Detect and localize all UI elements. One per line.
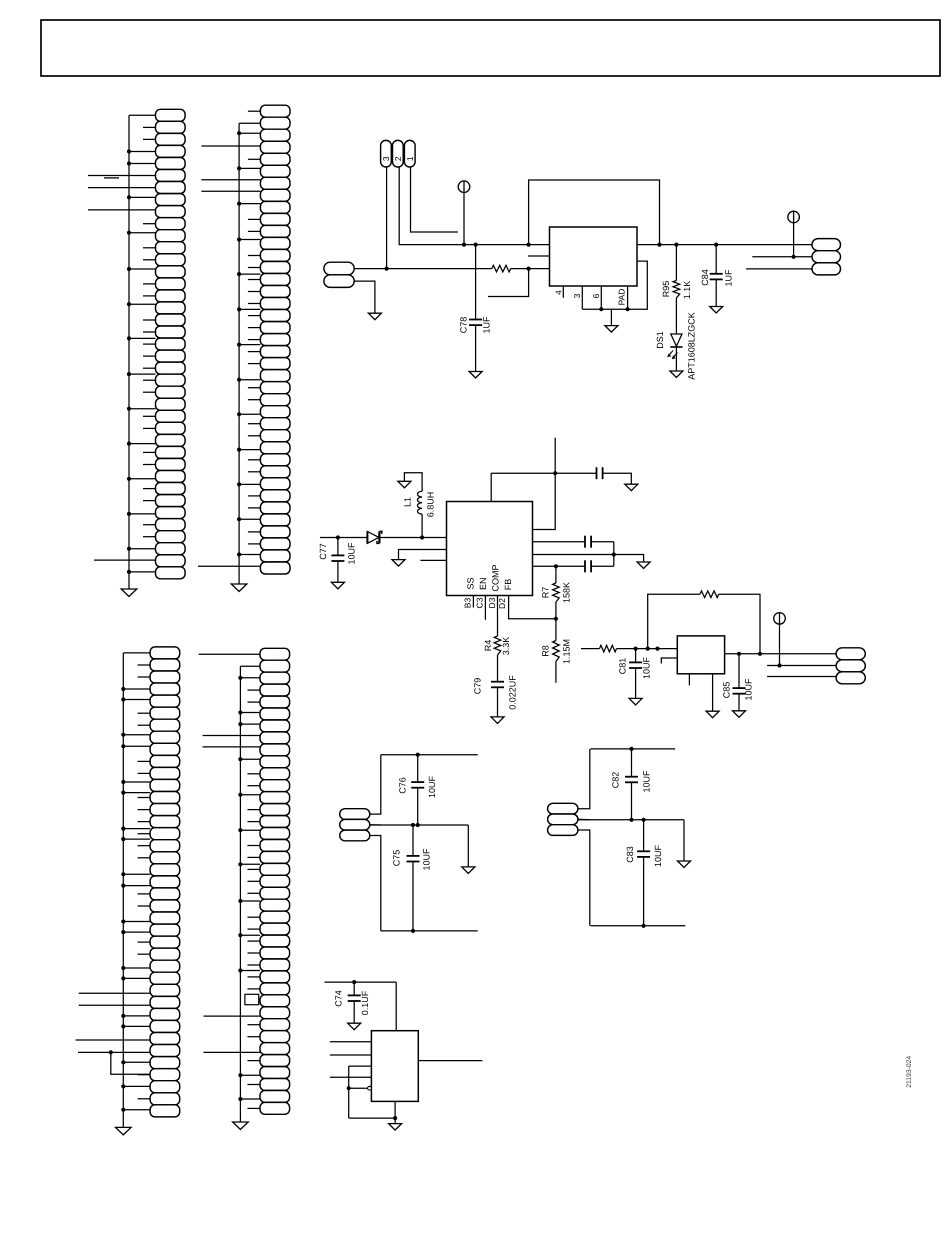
capacitor C85: [733, 687, 746, 689]
svg-text:C3: C3: [475, 597, 485, 608]
ground under C84: [710, 307, 723, 314]
svg-text:10UF: 10UF: [744, 678, 754, 701]
ground of C82 block: [678, 861, 691, 868]
connector P3 pin pills: [150, 647, 180, 1117]
wire J6 pin1 to top rail: [578, 749, 590, 809]
svg-text:B3: B3: [463, 598, 473, 609]
inductor L1 bottom wire: [421, 514, 423, 537]
connector J1 (2-pin): [324, 262, 354, 287]
ground under C79: [491, 717, 504, 724]
U1 pin 3 wire: [581, 286, 583, 309]
connector P1 corner lead wire: [129, 114, 156, 116]
wire J4 pin2 net: [767, 665, 836, 667]
power flag VOUT top: [788, 211, 800, 223]
C83 branch wire top: [643, 820, 645, 852]
node dot C83 top: [642, 818, 646, 822]
svg-text:3.3K: 3.3K: [501, 637, 511, 656]
svg-text:DS1: DS1: [655, 331, 665, 349]
connector J2 (3-pin, pins 3 2 1): [381, 140, 416, 167]
svg-text:4: 4: [554, 290, 564, 295]
stub wire from lower bus down-left: [488, 269, 529, 297]
connector P2 corner lead wire: [239, 122, 260, 124]
wire L1 top to ground: [404, 473, 422, 492]
svg-text:R4: R4: [483, 640, 493, 652]
node dot C85 branch: [737, 652, 741, 656]
svg-text:1.15M: 1.15M: [562, 639, 572, 664]
node dot FB divider: [554, 617, 558, 621]
node dot top loop left: [527, 243, 531, 247]
capacitor C77 branch wire: [337, 538, 339, 556]
wire J3 pin3 net: [746, 268, 812, 270]
U2 COMP pin wire: [497, 596, 499, 637]
net tick mark near P1: [104, 177, 119, 179]
C75 branch wire bottom: [412, 862, 414, 931]
U4 tie vertical wire: [348, 1066, 350, 1118]
svg-text:1.1K: 1.1K: [682, 281, 692, 300]
wire J5 pin2 to mid rail: [370, 824, 381, 826]
svg-text:10UF: 10UF: [641, 656, 651, 679]
top rail wire of C76 block: [381, 754, 478, 756]
node dot C83 bottom: [642, 924, 646, 928]
wire bootstrap cap to ground: [603, 473, 632, 484]
connector J3 (3-pin): [812, 239, 841, 275]
ground at U2 left: [392, 560, 405, 567]
wire J2 pin3 to lower bus: [386, 167, 388, 269]
resistor R7 top wire: [555, 566, 557, 583]
U2 pin C3 stub wire: [484, 596, 486, 620]
svg-text:C77: C77: [318, 543, 328, 560]
IC U4 body: [371, 1031, 418, 1102]
node dot J4 pin2: [777, 663, 781, 667]
svg-text:10UF: 10UF: [347, 542, 357, 565]
U3 bottom stub wire: [688, 674, 690, 686]
wire power flag to upper bus: [463, 192, 465, 245]
node dot C77 branch: [336, 535, 340, 539]
svg-text:C85: C85: [721, 682, 731, 699]
ground under U3: [706, 711, 719, 718]
C83 branch wire bottom: [643, 857, 645, 926]
ground under J1: [368, 313, 381, 320]
wire resistor to U3: [617, 648, 678, 650]
capacitor C79: [491, 681, 504, 683]
title block frame: [41, 20, 940, 76]
svg-text:1: 1: [405, 156, 415, 161]
wire J1 pin2 to ground: [354, 281, 375, 313]
wire output cap B to corner: [591, 565, 614, 567]
U4 short pin wire: [349, 1065, 372, 1067]
bottom rail wire of C82 block: [591, 925, 686, 927]
svg-text:EN: EN: [478, 578, 488, 591]
connector P2 bus wire: [238, 123, 240, 584]
U3 EN stub wire: [661, 658, 677, 664]
mid rail wire of C82 block: [578, 819, 684, 821]
svg-text:3: 3: [381, 156, 391, 161]
U2 FB pin wire: [533, 565, 586, 567]
ground under C81: [629, 698, 642, 705]
svg-text:1UF: 1UF: [482, 316, 492, 334]
top rail wire of U4 block: [324, 981, 396, 983]
node dot BST junction: [553, 471, 557, 475]
svg-text:0.1UF: 0.1UF: [360, 990, 370, 1015]
output capacitor B: [584, 560, 586, 572]
ground at U2 right: [637, 562, 650, 569]
svg-text:D2: D2: [497, 598, 507, 609]
bootstrap capacitor: [596, 467, 598, 479]
node wire with junction near P3 bottom: [109, 1050, 113, 1054]
capacitor C83: [637, 850, 650, 852]
wire C84 to ground: [715, 279, 717, 306]
DS1 emission arrows: [667, 351, 677, 360]
capacitor C78: [469, 319, 482, 321]
capacitor C81 branch wire: [635, 649, 637, 663]
node dot PAD junction: [626, 307, 630, 311]
ground under U1: [605, 326, 618, 333]
op IC U1 body: [550, 227, 638, 286]
node dot C76 top: [416, 753, 420, 757]
wire C74 to ground: [353, 1001, 355, 1023]
svg-text:C82: C82: [610, 772, 620, 789]
ground symbol under connector P2: [231, 584, 247, 592]
svg-text:C76: C76: [397, 777, 407, 794]
node dot U4 ground junction: [393, 1116, 397, 1120]
svg-text:APT1608LZGCK: APT1608LZGCK: [687, 312, 697, 380]
U4 input wire 1: [330, 1041, 372, 1043]
connector J5 (3-pin): [340, 809, 370, 841]
capacitor C74: [348, 994, 361, 996]
wire J5 pin3 to bottom rail: [370, 836, 381, 931]
U1 pin 6 wire: [600, 286, 602, 309]
node dot U4 tie: [347, 1086, 351, 1090]
C76 branch wire top: [417, 755, 419, 782]
connector P3 pin stub wires: [138, 665, 151, 1099]
connector P3 corner lead wire: [123, 652, 150, 654]
svg-text:0.022UF: 0.022UF: [508, 675, 518, 710]
connector P4 pin pills: [260, 648, 290, 1114]
svg-text:C74: C74: [333, 990, 343, 1007]
ground at bootstrap cap: [625, 484, 638, 491]
C82 branch wire top: [631, 749, 633, 777]
connector P4 pin lead wires with junction dots: [238, 676, 260, 1101]
node dot output cap bus: [612, 552, 616, 556]
wire top rail to U4 VCC: [395, 982, 397, 1031]
BST stub wire up: [554, 438, 556, 474]
LDO U3 body: [677, 636, 724, 674]
node dot C75 bottom: [411, 929, 415, 933]
series resistor at U3 input: [600, 645, 617, 652]
connector P4 corner lead wire: [240, 665, 260, 667]
svg-text:6.8UH: 6.8UH: [426, 492, 436, 518]
ground under C78: [469, 372, 482, 379]
node dot lower bus stub junction: [527, 267, 531, 271]
svg-text:C81: C81: [617, 658, 627, 675]
wire diode to U2 VIN: [379, 537, 446, 539]
wire J1 pin1 to lower bus: [354, 268, 386, 270]
connector P4 bus wire: [239, 666, 241, 1122]
connector P3 bus wire: [122, 653, 124, 1128]
connector P4 pin stub wires: [248, 690, 261, 1108]
svg-text:10UF: 10UF: [427, 775, 437, 798]
U4 enable bar wire with bubble: [349, 1087, 368, 1089]
ground symbol under connector P1: [121, 589, 137, 597]
resistor R8: [553, 641, 560, 662]
connector P1 pin pills: [156, 109, 186, 579]
node dot U3 input stub: [655, 647, 659, 651]
wire C77 to ground: [337, 561, 339, 582]
U2 left stub pin wire: [420, 559, 446, 561]
node dot feedback right: [758, 652, 762, 656]
capacitor C76: [411, 781, 424, 783]
node dot C78 branch: [474, 243, 478, 247]
capacitor C75: [407, 855, 420, 857]
node dot top loop right: [657, 243, 661, 247]
series resistor on lower bus: [492, 265, 511, 272]
connector P4 long net wires: [199, 654, 260, 1052]
capacitor C82: [625, 776, 638, 778]
node dot J3 pin2: [792, 255, 796, 259]
wire R7 to FB node: [555, 602, 557, 619]
connector P2 pin lead wires with junction dots: [237, 131, 260, 557]
wire J3 pin2 net: [752, 256, 812, 258]
svg-text:C83: C83: [625, 846, 635, 863]
connector J6 (3-pin): [548, 803, 578, 835]
U4 bottom tie wire: [349, 1117, 395, 1119]
wire J2 pin1 stub: [411, 167, 458, 232]
U2 VOUT pin1 wire: [533, 541, 586, 543]
wire J4 pin3 net: [767, 676, 836, 678]
wire C85 to ground: [738, 694, 740, 711]
schottky diode D1: [367, 532, 379, 544]
J2 pin labels 3 2 1: [381, 156, 415, 161]
U1 bottom pins bus wire: [582, 261, 647, 309]
svg-text:R95: R95: [661, 281, 671, 298]
top rail wire of C82 block: [591, 748, 676, 750]
svg-text:C75: C75: [392, 850, 402, 867]
regulator U2 body: [447, 502, 533, 596]
U4 output wire: [418, 1060, 482, 1062]
ground symbol under connector P3: [116, 1127, 132, 1135]
resistor R95 top wire: [675, 245, 677, 281]
svg-text:C78: C78: [459, 317, 469, 334]
resistor R4: [494, 636, 501, 655]
capacitor C77: [331, 554, 344, 556]
feedback loop wire over U3: [648, 594, 700, 648]
node dot R95 branch: [674, 243, 678, 247]
wire DS1 to ground: [675, 347, 677, 371]
ground symbol under connector P4: [233, 1122, 249, 1130]
svg-text:158K: 158K: [562, 582, 572, 603]
node dot R7 top: [554, 564, 558, 568]
node dot C84 branch: [714, 243, 718, 247]
bottom rail wire of C76 block: [381, 930, 478, 932]
wire J6 pin3 to bottom rail: [578, 830, 590, 926]
node dot C74: [352, 980, 356, 984]
wire J6 pin2 to mid rail: [578, 818, 591, 821]
wire R95 to DS1: [675, 298, 677, 334]
ground under C77: [331, 582, 344, 589]
svg-text:SS: SS: [466, 577, 476, 589]
svg-text:R8: R8: [540, 645, 550, 657]
ground of C76 block: [462, 867, 475, 874]
feedback resistor over U3: [700, 591, 719, 598]
wire C81 to ground: [635, 668, 637, 698]
inductor L1 coil: [417, 491, 422, 514]
svg-text:C79: C79: [473, 678, 483, 695]
node dot C81 branch: [634, 647, 638, 651]
svg-text:C84: C84: [700, 269, 710, 286]
capacitor C84: [710, 273, 723, 275]
U1 PAD pin wire: [627, 286, 629, 309]
ground under DS1: [670, 371, 683, 378]
svg-text:1UF: 1UF: [724, 269, 734, 287]
wire bottom bus to ground: [610, 309, 612, 325]
wire C78 to ground: [475, 325, 477, 371]
capacitor C78 branch wire: [475, 245, 477, 320]
U2 top net wire: [491, 472, 596, 474]
svg-text:10UF: 10UF: [422, 848, 432, 871]
U3 output wire to J4: [725, 653, 837, 655]
U1 pin 4 wire: [562, 286, 564, 298]
U2 GND pin wire to ground: [533, 555, 644, 563]
resistor R95: [673, 281, 680, 298]
svg-text:FB: FB: [503, 579, 513, 591]
U2 top pin wire: [490, 473, 492, 501]
power flag VIN: [458, 181, 470, 193]
U2 left pin to ground wire: [399, 550, 447, 560]
jumper block on connector P4: [245, 994, 259, 1004]
capacitor C84 branch wire: [715, 245, 717, 274]
output capacitor A: [584, 536, 586, 548]
node dot feedback branch left: [646, 647, 650, 651]
wire R4 to C79: [497, 655, 499, 682]
svg-text:3: 3: [572, 293, 582, 298]
lower bus wire segment to U1: [511, 268, 550, 270]
U4 input wire 2: [330, 1054, 372, 1056]
wire power flag to J3 pin2: [793, 222, 795, 256]
connector P1 pin lead wires with junction dots: [127, 149, 156, 574]
capacitor C85 branch wire: [738, 654, 740, 688]
wire power flag to J4 pin2: [779, 624, 781, 666]
node dot pin6 junction: [599, 307, 603, 311]
input net wire to D? and U2: [320, 537, 367, 539]
svg-text:R7: R7: [540, 587, 550, 599]
ground at L1 top: [398, 481, 411, 488]
U3 GND pin wire: [712, 674, 714, 711]
svg-text:COMP: COMP: [491, 565, 501, 592]
svg-text:2: 2: [393, 156, 403, 161]
wire output cap A to corner: [591, 541, 614, 543]
C76 branch wire bottom: [417, 788, 419, 825]
U4 ground pin wire: [394, 1101, 396, 1123]
wire J5 pin1 to top rail: [370, 755, 381, 814]
wire C79 to ground: [497, 687, 499, 717]
svg-text:6: 6: [591, 293, 601, 298]
node dot L1 bottom junction: [420, 535, 424, 539]
connector P2 long net wires: [198, 146, 260, 566]
connector P2 pin stub wires: [248, 111, 261, 544]
U2 FB bottom pin wire: [509, 596, 556, 619]
LED DS1: [671, 334, 682, 346]
node dot C82 bottom: [629, 818, 633, 822]
BST wire down to U2 right pin: [533, 473, 556, 529]
connector P1 pin stub wires: [143, 127, 156, 536]
node dot C75 top: [411, 823, 415, 827]
lower bus wire segment to resistor: [387, 268, 492, 270]
node dot C76 bottom: [416, 823, 420, 827]
svg-text:L1: L1: [403, 497, 413, 507]
svg-text:21193-024: 21193-024: [906, 1056, 913, 1088]
top feedback loop wire of U1: [529, 180, 660, 245]
U2 pin B3 stub wire: [472, 596, 474, 608]
resistor R7: [553, 583, 560, 602]
power flag 3V3: [774, 613, 786, 625]
node dot C82 top: [629, 747, 633, 751]
R8 top wire: [555, 619, 557, 641]
connector P3 long net wires: [76, 993, 151, 1052]
svg-text:PAD: PAD: [616, 289, 626, 306]
node dot upper bus at power flag: [462, 243, 466, 247]
mid rail wire of C76 block: [370, 824, 469, 826]
U1 left stub pin wire: [528, 255, 550, 257]
ground under C85: [733, 711, 746, 718]
C75 branch wire top: [412, 825, 414, 856]
connector P1 bus wire: [128, 115, 130, 589]
connector J4 (3-pin): [836, 648, 865, 684]
wire J2 pin2 to upper bus: [399, 167, 464, 245]
node dot lower bus at J2 pin3: [385, 267, 389, 271]
wire mid rail to ground: [467, 825, 469, 867]
R8 bottom wire stub: [555, 662, 557, 683]
upper bus wire to U1: [464, 244, 550, 246]
wire mid rail to ground 2: [683, 820, 685, 861]
svg-text:10UF: 10UF: [653, 844, 663, 867]
feedback loop wire right side: [719, 594, 760, 654]
connector P3 pin lead wires with junction dots: [121, 687, 150, 1112]
capacitor C81: [629, 661, 642, 663]
ground under U4: [389, 1124, 402, 1131]
output bus wire from U1 to J3: [637, 244, 812, 246]
C82 branch wire bottom: [631, 782, 633, 820]
U4 input wire 3: [330, 1076, 372, 1078]
output cap bus vertical wire: [613, 542, 615, 567]
svg-text:D3: D3: [487, 597, 497, 608]
connector P2 pin pills: [260, 105, 290, 574]
svg-text:10UF: 10UF: [641, 770, 651, 793]
input net wire to series resistor: [581, 648, 600, 650]
C74 branch wire: [353, 982, 355, 995]
ground under C74: [348, 1023, 361, 1029]
connector P1 long net wires: [88, 176, 156, 561]
